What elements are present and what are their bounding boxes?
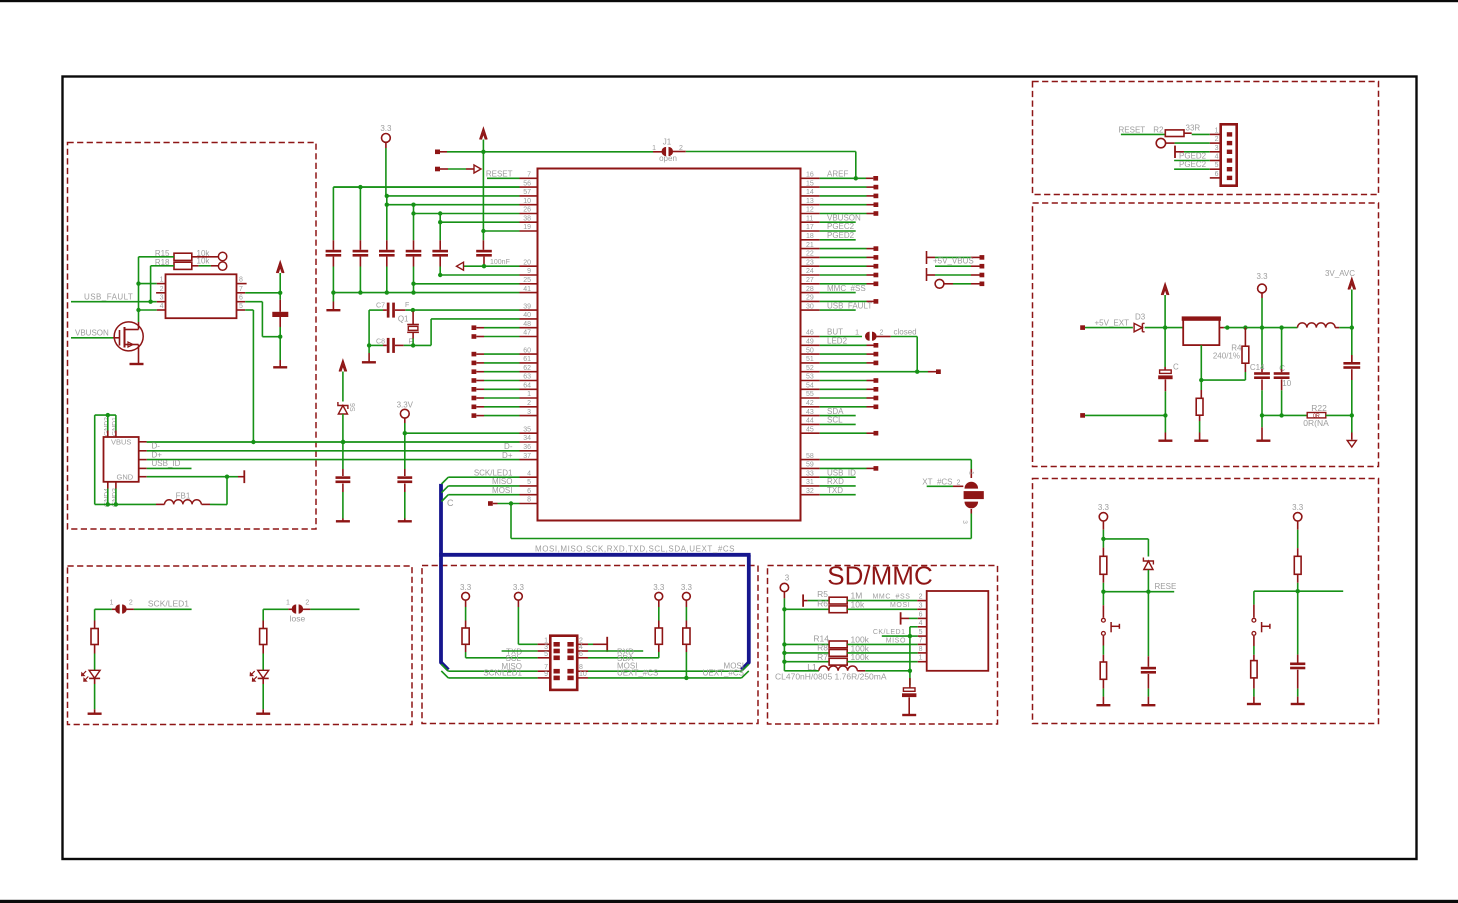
svg-text:GND2: GND2 bbox=[103, 417, 110, 436]
wire AREF to J1 junction bbox=[820, 177, 866, 179]
pin 3 of U1 (left) bbox=[520, 415, 538, 417]
svg-text:5: 5 bbox=[919, 629, 923, 636]
bus ripper pin6 bbox=[442, 495, 449, 502]
svg-text:1: 1 bbox=[855, 330, 859, 337]
svg-text:3V_AVC: 3V_AVC bbox=[1325, 269, 1355, 278]
pin 34 of U1 (left) bbox=[520, 441, 538, 443]
svg-text:USB_ID: USB_ID bbox=[152, 459, 181, 468]
svg-text:40: 40 bbox=[523, 312, 531, 319]
wire pin7 to VCC arrow column bbox=[245, 292, 280, 294]
svg-text:2: 2 bbox=[957, 480, 961, 487]
bus ripper UEXT right bbox=[742, 671, 749, 678]
svg-text:44: 44 bbox=[806, 418, 814, 425]
ground below adj resistor bbox=[1194, 440, 1208, 442]
svg-text:14: 14 bbox=[806, 189, 814, 196]
svg-text:21: 21 bbox=[806, 242, 814, 249]
svg-text:6: 6 bbox=[919, 611, 923, 618]
pin 8 of U2 bbox=[237, 283, 247, 285]
svg-text:2: 2 bbox=[129, 600, 133, 607]
test pad circle 1 bbox=[192, 256, 218, 258]
button B2 bbox=[1253, 591, 1255, 604]
svg-text:100nF: 100nF bbox=[490, 259, 510, 266]
resistor series button1 bbox=[1102, 655, 1104, 662]
svg-text:20: 20 bbox=[523, 259, 531, 266]
pin 35 of U1 (left) bbox=[520, 432, 538, 434]
svg-text:2: 2 bbox=[527, 400, 531, 407]
pin 31 of U1 (right) bbox=[801, 485, 820, 487]
svg-text:10k: 10k bbox=[851, 599, 865, 609]
svg-text:SCK/LED1: SCK/LED1 bbox=[474, 468, 513, 477]
svg-text:13: 13 bbox=[806, 198, 814, 205]
svg-text:USB_ID: USB_ID bbox=[827, 468, 856, 477]
svg-text:SCL: SCL bbox=[827, 416, 843, 425]
svg-text:47: 47 bbox=[523, 330, 531, 337]
svg-text:C14: C14 bbox=[1250, 363, 1265, 372]
svg-text:open: open bbox=[659, 154, 677, 163]
svg-text:3: 3 bbox=[961, 520, 968, 524]
net row button2 bbox=[1296, 589, 1300, 593]
bus C bend left bbox=[440, 662, 448, 670]
svg-text:MISO: MISO bbox=[492, 477, 512, 486]
svg-text:36: 36 bbox=[523, 444, 531, 451]
svg-text:VBUSON: VBUSON bbox=[75, 329, 109, 338]
wire R7 to pin1 bbox=[847, 661, 918, 663]
pin USB_ID of J2 bbox=[139, 467, 147, 469]
ICSP pin 2 pad bbox=[1227, 141, 1232, 145]
module outline: UEXT connector bbox=[422, 566, 758, 724]
pin 57 of U1 (left) bbox=[520, 195, 538, 197]
SD connector body bbox=[927, 591, 989, 671]
svg-text:C: C bbox=[1173, 363, 1179, 372]
svg-text:2: 2 bbox=[305, 600, 309, 607]
LED bbox=[89, 670, 100, 678]
resistor pullup button1 bbox=[1102, 539, 1104, 548]
pin 10 of U1 (left) bbox=[520, 204, 538, 206]
resistor uext col4 bbox=[683, 628, 690, 644]
wire LED to ground bbox=[262, 684, 264, 709]
svg-text:GND: GND bbox=[117, 472, 134, 481]
pin 39 of U1 (left) bbox=[520, 309, 538, 311]
svg-text:3.3: 3.3 bbox=[1256, 272, 1268, 281]
svg-text:R6: R6 bbox=[817, 599, 828, 609]
wire pin4 column down bbox=[909, 627, 911, 671]
wire SCK/LED1 from bus bbox=[448, 677, 537, 679]
wire R22 row bbox=[1262, 414, 1307, 416]
pin 3 of U2 bbox=[157, 301, 166, 303]
supply arrow 5V rail bbox=[1162, 284, 1169, 295]
svg-text:1: 1 bbox=[1215, 127, 1219, 134]
svg-text:3.3: 3.3 bbox=[460, 583, 472, 592]
pin 15 of U1 (right) bbox=[801, 186, 820, 188]
svg-text:52: 52 bbox=[806, 365, 814, 372]
wire pin58 to XT jumper bbox=[820, 459, 972, 461]
wire C8 right bbox=[395, 344, 404, 346]
net stub bottom rail bbox=[1080, 413, 1085, 418]
svg-text:2: 2 bbox=[1215, 136, 1219, 143]
wire 3.3 feed down to cap bank bbox=[385, 148, 387, 196]
pin 2 of U2 bbox=[156, 292, 165, 294]
pin 46 of U1 (right) bbox=[801, 336, 820, 338]
svg-text:42: 42 bbox=[806, 400, 814, 407]
bus ripper SCK left bbox=[441, 671, 448, 678]
svg-text:1: 1 bbox=[109, 600, 113, 607]
wire regulator input cap column bbox=[1164, 328, 1166, 367]
svg-text:64: 64 bbox=[523, 383, 531, 390]
pin 43 of U1 (right) bbox=[801, 415, 820, 417]
pin 6 of U1 (left) bbox=[520, 494, 538, 496]
ground below button2 bbox=[1247, 703, 1261, 705]
wire C7 left bbox=[383, 309, 387, 311]
pin 55 of U1 (right) bbox=[801, 397, 820, 399]
svg-text:10: 10 bbox=[579, 671, 587, 678]
svg-text:GND1: GND1 bbox=[111, 417, 118, 436]
resistor LED series bbox=[262, 609, 264, 620]
svg-text:+5V_VBUS: +5V_VBUS bbox=[933, 256, 974, 265]
svg-text:SCK/LED1: SCK/LED1 bbox=[483, 669, 522, 678]
svg-text:FB1: FB1 bbox=[176, 491, 191, 500]
bus C horizontal bbox=[439, 553, 750, 557]
svg-text:28: 28 bbox=[806, 286, 814, 293]
pin 63 of U1 (left) bbox=[520, 380, 538, 382]
capacitor C8 bbox=[387, 338, 390, 353]
header pin6 stub bbox=[1210, 177, 1221, 179]
svg-text:BUT: BUT bbox=[827, 328, 843, 337]
svg-text:35: 35 bbox=[523, 426, 531, 433]
svg-text:33R: 33R bbox=[1186, 123, 1201, 132]
regulator U3 body bbox=[1183, 318, 1219, 345]
wire supply column SD bbox=[783, 598, 785, 670]
resistor pullup button2 bbox=[1294, 556, 1301, 574]
svg-text:4: 4 bbox=[1215, 154, 1219, 161]
page bottom border bar bbox=[0, 900, 1458, 903]
pin5 stub bbox=[910, 635, 918, 637]
supply arrow VCC top bbox=[480, 129, 487, 140]
tbar pin6 bbox=[900, 612, 902, 624]
net stub into J1 wire bbox=[435, 150, 440, 155]
pin 27 of U1 (right) bbox=[801, 283, 820, 285]
svg-text:4: 4 bbox=[919, 620, 923, 627]
wire SDA bbox=[588, 657, 659, 659]
pin 53 of U1 (right) bbox=[801, 380, 820, 382]
ground below switch cap bbox=[273, 366, 287, 368]
wire RXD bbox=[588, 650, 643, 652]
svg-text:31: 31 bbox=[806, 479, 814, 486]
svg-text:49: 49 bbox=[806, 339, 814, 346]
svg-text:53: 53 bbox=[806, 374, 814, 381]
wire top gnd bracket bbox=[95, 414, 116, 416]
ground below C14 bbox=[1256, 440, 1270, 442]
svg-text:RESET: RESET bbox=[486, 170, 513, 179]
wire R5 to pin2 bbox=[847, 600, 917, 602]
wire RESET to R2 bbox=[1121, 133, 1165, 135]
pin 49 of U1 (right) bbox=[801, 344, 820, 346]
tbar R5 left bbox=[802, 594, 804, 606]
ground below LED bbox=[256, 713, 270, 715]
svg-text:PGEC2: PGEC2 bbox=[827, 222, 855, 231]
supply arrow VBUS switch bbox=[277, 262, 284, 273]
svg-text:RESE: RESE bbox=[1155, 582, 1177, 591]
capacitor on 3.3V column bbox=[397, 476, 412, 479]
svg-text:1: 1 bbox=[527, 391, 531, 398]
bus ripper MOSI right bbox=[742, 664, 749, 671]
svg-text:F: F bbox=[405, 302, 409, 309]
svg-text:3.3: 3.3 bbox=[681, 583, 693, 592]
svg-text:240/1%: 240/1% bbox=[1213, 351, 1240, 360]
svg-text:19: 19 bbox=[523, 224, 531, 231]
svg-text:56: 56 bbox=[523, 180, 531, 187]
pin 11 of U1 (right) bbox=[801, 221, 820, 223]
svg-text:C7: C7 bbox=[376, 303, 385, 310]
supply +5V_VBUS row2 bbox=[935, 265, 971, 267]
capacitor C1 (decoupling) bbox=[326, 250, 342, 253]
wire cap node down to ground bbox=[279, 337, 281, 360]
svg-text:UEXT_#CS: UEXT_#CS bbox=[703, 668, 744, 677]
net RESE row bbox=[1101, 590, 1105, 594]
svg-text:2: 2 bbox=[679, 145, 683, 152]
wire pin6 to cap bottom node bbox=[245, 301, 262, 303]
pin 54 of U1 (right) bbox=[801, 388, 820, 390]
svg-text:LED2: LED2 bbox=[827, 337, 848, 346]
capacitor button1 bbox=[1147, 592, 1149, 657]
svg-text:UEXT_#CS: UEXT_#CS bbox=[617, 668, 658, 677]
pin 8 stub with antenna square and junction bbox=[488, 501, 493, 506]
svg-text:3.3: 3.3 bbox=[1292, 503, 1304, 512]
capacitor polarized SD bbox=[909, 671, 911, 686]
svg-text:3: 3 bbox=[1215, 145, 1219, 152]
wire 3.3V column to cap bbox=[404, 433, 406, 469]
capacitor at switch output bbox=[279, 293, 281, 300]
svg-text:C8: C8 bbox=[376, 339, 385, 346]
ground below LED bbox=[88, 713, 102, 715]
wire GND to tbar bbox=[147, 476, 227, 478]
pin 47 of U1 (left) bbox=[520, 336, 538, 338]
UEXT pin row 7/8 bbox=[538, 670, 551, 672]
wire header pin2 to tbar bbox=[588, 643, 593, 645]
supply +5V_VBUS row4 circle bbox=[935, 279, 944, 288]
svg-text:USB_FAULT: USB_FAULT bbox=[827, 301, 872, 310]
wire C8 left bbox=[383, 344, 387, 346]
svg-text:3: 3 bbox=[160, 295, 164, 302]
wire crystal ground column bbox=[368, 310, 370, 345]
wire pin8 net to XT bbox=[510, 504, 512, 539]
pin 19 of U1 (left) bbox=[520, 230, 538, 232]
test pad circle 2 bbox=[192, 265, 199, 267]
svg-text:MMC_#SS: MMC_#SS bbox=[827, 284, 866, 293]
svg-text:CK/LED1: CK/LED1 bbox=[873, 629, 906, 636]
svg-text:100k: 100k bbox=[851, 652, 870, 662]
svg-text:2: 2 bbox=[919, 594, 923, 601]
ground arrow AVC bbox=[1347, 441, 1356, 448]
wire R18 left rail bbox=[151, 265, 174, 267]
svg-text:39: 39 bbox=[523, 303, 531, 310]
ground below button2 cap bbox=[1291, 703, 1305, 705]
wire regulator adj down bbox=[1200, 345, 1202, 380]
pin 50 of U1 (right) bbox=[801, 353, 820, 355]
svg-text:R8: R8 bbox=[817, 643, 828, 653]
UEXT header body bbox=[550, 636, 577, 690]
wire R2 to header pin1 bbox=[1184, 132, 1192, 134]
svg-text:41: 41 bbox=[523, 286, 531, 293]
ICSP pin 3 pad bbox=[1227, 150, 1232, 154]
svg-text:MOSI,MISO,SCK,RXD,TXD,SCL,SDA,: MOSI,MISO,SCK,RXD,TXD,SCL,SDA,UEXT_#CS bbox=[535, 545, 735, 554]
pin 6 of U2 bbox=[237, 301, 246, 303]
supply arrow above zener D2 bbox=[339, 361, 346, 372]
wire USB_FAULT bbox=[71, 301, 157, 303]
jumper closed on BUT bbox=[820, 336, 862, 338]
pin 1 of U1 (left) bbox=[520, 397, 538, 399]
svg-text:R2: R2 bbox=[1153, 125, 1164, 134]
pin 41 of U1 (left) bbox=[520, 292, 538, 294]
pin 14 of U1 (right) bbox=[801, 195, 820, 197]
wire D3 to regulator bbox=[1145, 327, 1184, 329]
pin 64 of U1 (left) bbox=[520, 388, 538, 390]
wire pin5 down to VBUS net bbox=[245, 309, 253, 311]
wire R14 to pin7 bbox=[847, 643, 918, 645]
wire C14 column bbox=[1261, 328, 1263, 369]
svg-text:4: 4 bbox=[527, 470, 531, 477]
svg-text:TXD: TXD bbox=[827, 486, 843, 495]
svg-text:5: 5 bbox=[239, 303, 243, 310]
svg-text:C: C bbox=[447, 498, 454, 508]
jumper SCK/LED1 bbox=[95, 608, 112, 610]
pin 44 of U1 (right) bbox=[801, 423, 820, 425]
svg-text:VBUS: VBUS bbox=[111, 437, 131, 446]
wire VBUS net bbox=[147, 441, 520, 443]
pin 7 of U1 (left) bbox=[520, 177, 538, 179]
resistor uext col3 bbox=[655, 628, 662, 644]
pin 5 of U2 bbox=[237, 309, 246, 311]
jumper lose bbox=[263, 608, 288, 610]
capacitor AVC bbox=[1343, 362, 1360, 365]
ground below zener cap bbox=[336, 520, 350, 522]
ground below button1 cap bbox=[1141, 704, 1155, 706]
svg-text:43: 43 bbox=[806, 409, 814, 416]
svg-text:R5: R5 bbox=[817, 589, 828, 599]
svg-text:R7: R7 bbox=[817, 652, 828, 662]
ground below cap bank bbox=[332, 293, 334, 302]
wire MISO from bus bbox=[448, 670, 537, 672]
MCU U1 body bbox=[538, 169, 801, 521]
pin 1 of U2 bbox=[157, 283, 166, 285]
pin 38 of U1 (left) bbox=[520, 221, 538, 223]
wire J1 net bbox=[447, 151, 653, 153]
svg-text:4: 4 bbox=[160, 303, 164, 310]
pin 48 of U1 (left) bbox=[520, 327, 538, 329]
svg-text:PGED2: PGED2 bbox=[827, 231, 855, 240]
supply +5V_VBUS row1 bbox=[926, 251, 928, 264]
pin 30 of U1 (right) bbox=[801, 309, 820, 311]
svg-text:6: 6 bbox=[527, 488, 531, 495]
pin 36 of U1 (left) bbox=[520, 450, 538, 452]
module outline: ICSP header bbox=[1033, 82, 1379, 195]
port VCAP arrow bbox=[457, 262, 464, 270]
ground below transistor bbox=[130, 363, 144, 365]
svg-text:62: 62 bbox=[523, 365, 531, 372]
svg-text:50: 50 bbox=[806, 347, 814, 354]
wire R8 to pin8 bbox=[847, 652, 918, 654]
svg-text:RESET: RESET bbox=[1119, 125, 1146, 134]
svg-text:7: 7 bbox=[919, 637, 923, 644]
capacitor C6 100nF bbox=[476, 250, 492, 253]
USB connector J2 body bbox=[104, 437, 139, 482]
svg-text:3.3: 3.3 bbox=[1098, 503, 1110, 512]
svg-text:17: 17 bbox=[806, 224, 814, 231]
svg-text:8: 8 bbox=[239, 277, 243, 284]
wire cap bank column 4 bbox=[413, 205, 415, 241]
pin 9 of U1 (left) bbox=[520, 274, 538, 276]
wire bottom gnd bracket bbox=[95, 503, 156, 505]
wire 3.3 to header pin1 bbox=[517, 607, 519, 644]
pin 17 of U1 (right) bbox=[801, 230, 820, 232]
ground below input cap bbox=[1158, 440, 1172, 442]
pin 22 of U1 (right) bbox=[801, 256, 820, 258]
module outline: SD/MMC bbox=[768, 566, 998, 725]
ground below button1 bbox=[1096, 704, 1110, 706]
svg-text:10k: 10k bbox=[197, 257, 211, 266]
svg-text:54: 54 bbox=[806, 383, 814, 390]
svg-text:RXD: RXD bbox=[827, 477, 844, 486]
svg-text:2: 2 bbox=[160, 286, 164, 293]
pin 33 of U1 (right) bbox=[801, 476, 820, 478]
port RESET input bbox=[435, 167, 440, 172]
pin 18 of U1 (right) bbox=[801, 239, 820, 241]
svg-text:MMC_#SS: MMC_#SS bbox=[873, 593, 911, 600]
capacitor C2 (decoupling) bbox=[353, 250, 369, 253]
bus ripper MISO left bbox=[441, 664, 448, 671]
resistor LED series bbox=[94, 609, 96, 620]
pin 24 of U1 (right) bbox=[801, 274, 820, 276]
wire BUT jumper to pin52 bbox=[891, 336, 917, 338]
module outline: power supply bbox=[1033, 203, 1379, 467]
svg-text:XT_#CS: XT_#CS bbox=[922, 478, 952, 487]
svg-text:46: 46 bbox=[806, 330, 814, 337]
pin D- of J2 bbox=[139, 450, 147, 452]
svg-text:3: 3 bbox=[785, 574, 790, 583]
pin 51 of U1 (right) bbox=[801, 362, 820, 364]
svg-text:58: 58 bbox=[806, 453, 814, 460]
svg-text:PGED2: PGED2 bbox=[1179, 151, 1207, 160]
svg-text:60: 60 bbox=[523, 347, 531, 354]
pin 13 of U1 (right) bbox=[801, 204, 820, 206]
svg-text:MOSI: MOSI bbox=[492, 486, 512, 495]
svg-text:PGEC2: PGEC2 bbox=[1179, 160, 1207, 169]
wire L1 to cap node bbox=[865, 670, 910, 672]
button B1 bbox=[1102, 592, 1104, 606]
svg-text:5: 5 bbox=[544, 651, 548, 658]
svg-text:3.3: 3.3 bbox=[653, 583, 665, 592]
wire cap bank column 2 bbox=[359, 187, 361, 240]
svg-text:SCK/LED1: SCK/LED1 bbox=[148, 599, 189, 609]
svg-text:9: 9 bbox=[527, 268, 531, 275]
svg-text:D-: D- bbox=[152, 442, 161, 451]
svg-text:D+: D+ bbox=[502, 451, 513, 460]
pin 60 of U1 (left) bbox=[520, 353, 538, 355]
pin 7 of U2 bbox=[237, 292, 246, 294]
svg-text:24: 24 bbox=[806, 268, 814, 275]
pin 16 of U1 (right) bbox=[801, 177, 820, 179]
LED bbox=[258, 670, 269, 678]
svg-text:25: 25 bbox=[523, 277, 531, 284]
svg-text:R22: R22 bbox=[1311, 403, 1327, 413]
svg-text:9S: 9S bbox=[348, 403, 355, 412]
UEXT pin row 1/2 bbox=[538, 643, 551, 645]
svg-text:63: 63 bbox=[523, 374, 531, 381]
pin 58 of U1 (right) bbox=[801, 459, 820, 461]
wire R15 left rail bbox=[139, 256, 175, 258]
pin 37 of U1 (left) bbox=[520, 459, 538, 461]
svg-text:3.3: 3.3 bbox=[513, 583, 525, 592]
wire SCL to header bbox=[466, 657, 538, 659]
